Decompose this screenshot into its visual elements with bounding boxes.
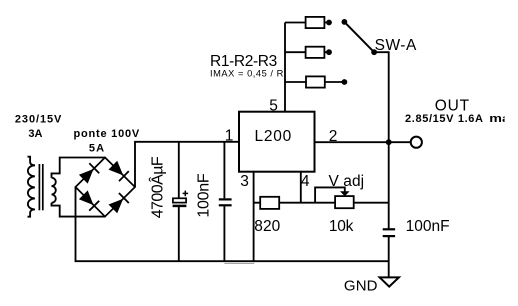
svg-text:4700ÂµF: 4700ÂµF xyxy=(148,156,167,218)
svg-text:IMAX = 0,45 / R: IMAX = 0,45 / R xyxy=(210,69,284,79)
svg-text:3A: 3A xyxy=(28,128,42,140)
svg-text:L200: L200 xyxy=(255,128,292,145)
svg-text:230/15V: 230/15V xyxy=(15,114,62,126)
svg-text:820: 820 xyxy=(254,218,280,235)
svg-text:100nF: 100nF xyxy=(406,218,450,235)
svg-text:ponte 100V: ponte 100V xyxy=(74,128,140,140)
svg-text:2: 2 xyxy=(329,128,338,145)
svg-text:10k: 10k xyxy=(329,218,354,235)
svg-text:100nF: 100nF xyxy=(196,173,213,218)
svg-text:OUT: OUT xyxy=(435,98,470,115)
svg-text:V adj: V adj xyxy=(329,173,365,190)
svg-text:5A: 5A xyxy=(89,143,104,155)
svg-text:SW-A: SW-A xyxy=(375,37,417,54)
svg-text:1: 1 xyxy=(225,128,234,145)
svg-text:R1-R2-R3: R1-R2-R3 xyxy=(210,53,277,70)
svg-text:4: 4 xyxy=(301,173,310,190)
svg-text:GND: GND xyxy=(344,277,378,294)
svg-text:5: 5 xyxy=(269,97,278,114)
svg-text:3: 3 xyxy=(240,173,249,190)
svg-text:2.85/15V 1.6A: 2.85/15V 1.6A xyxy=(405,113,483,125)
